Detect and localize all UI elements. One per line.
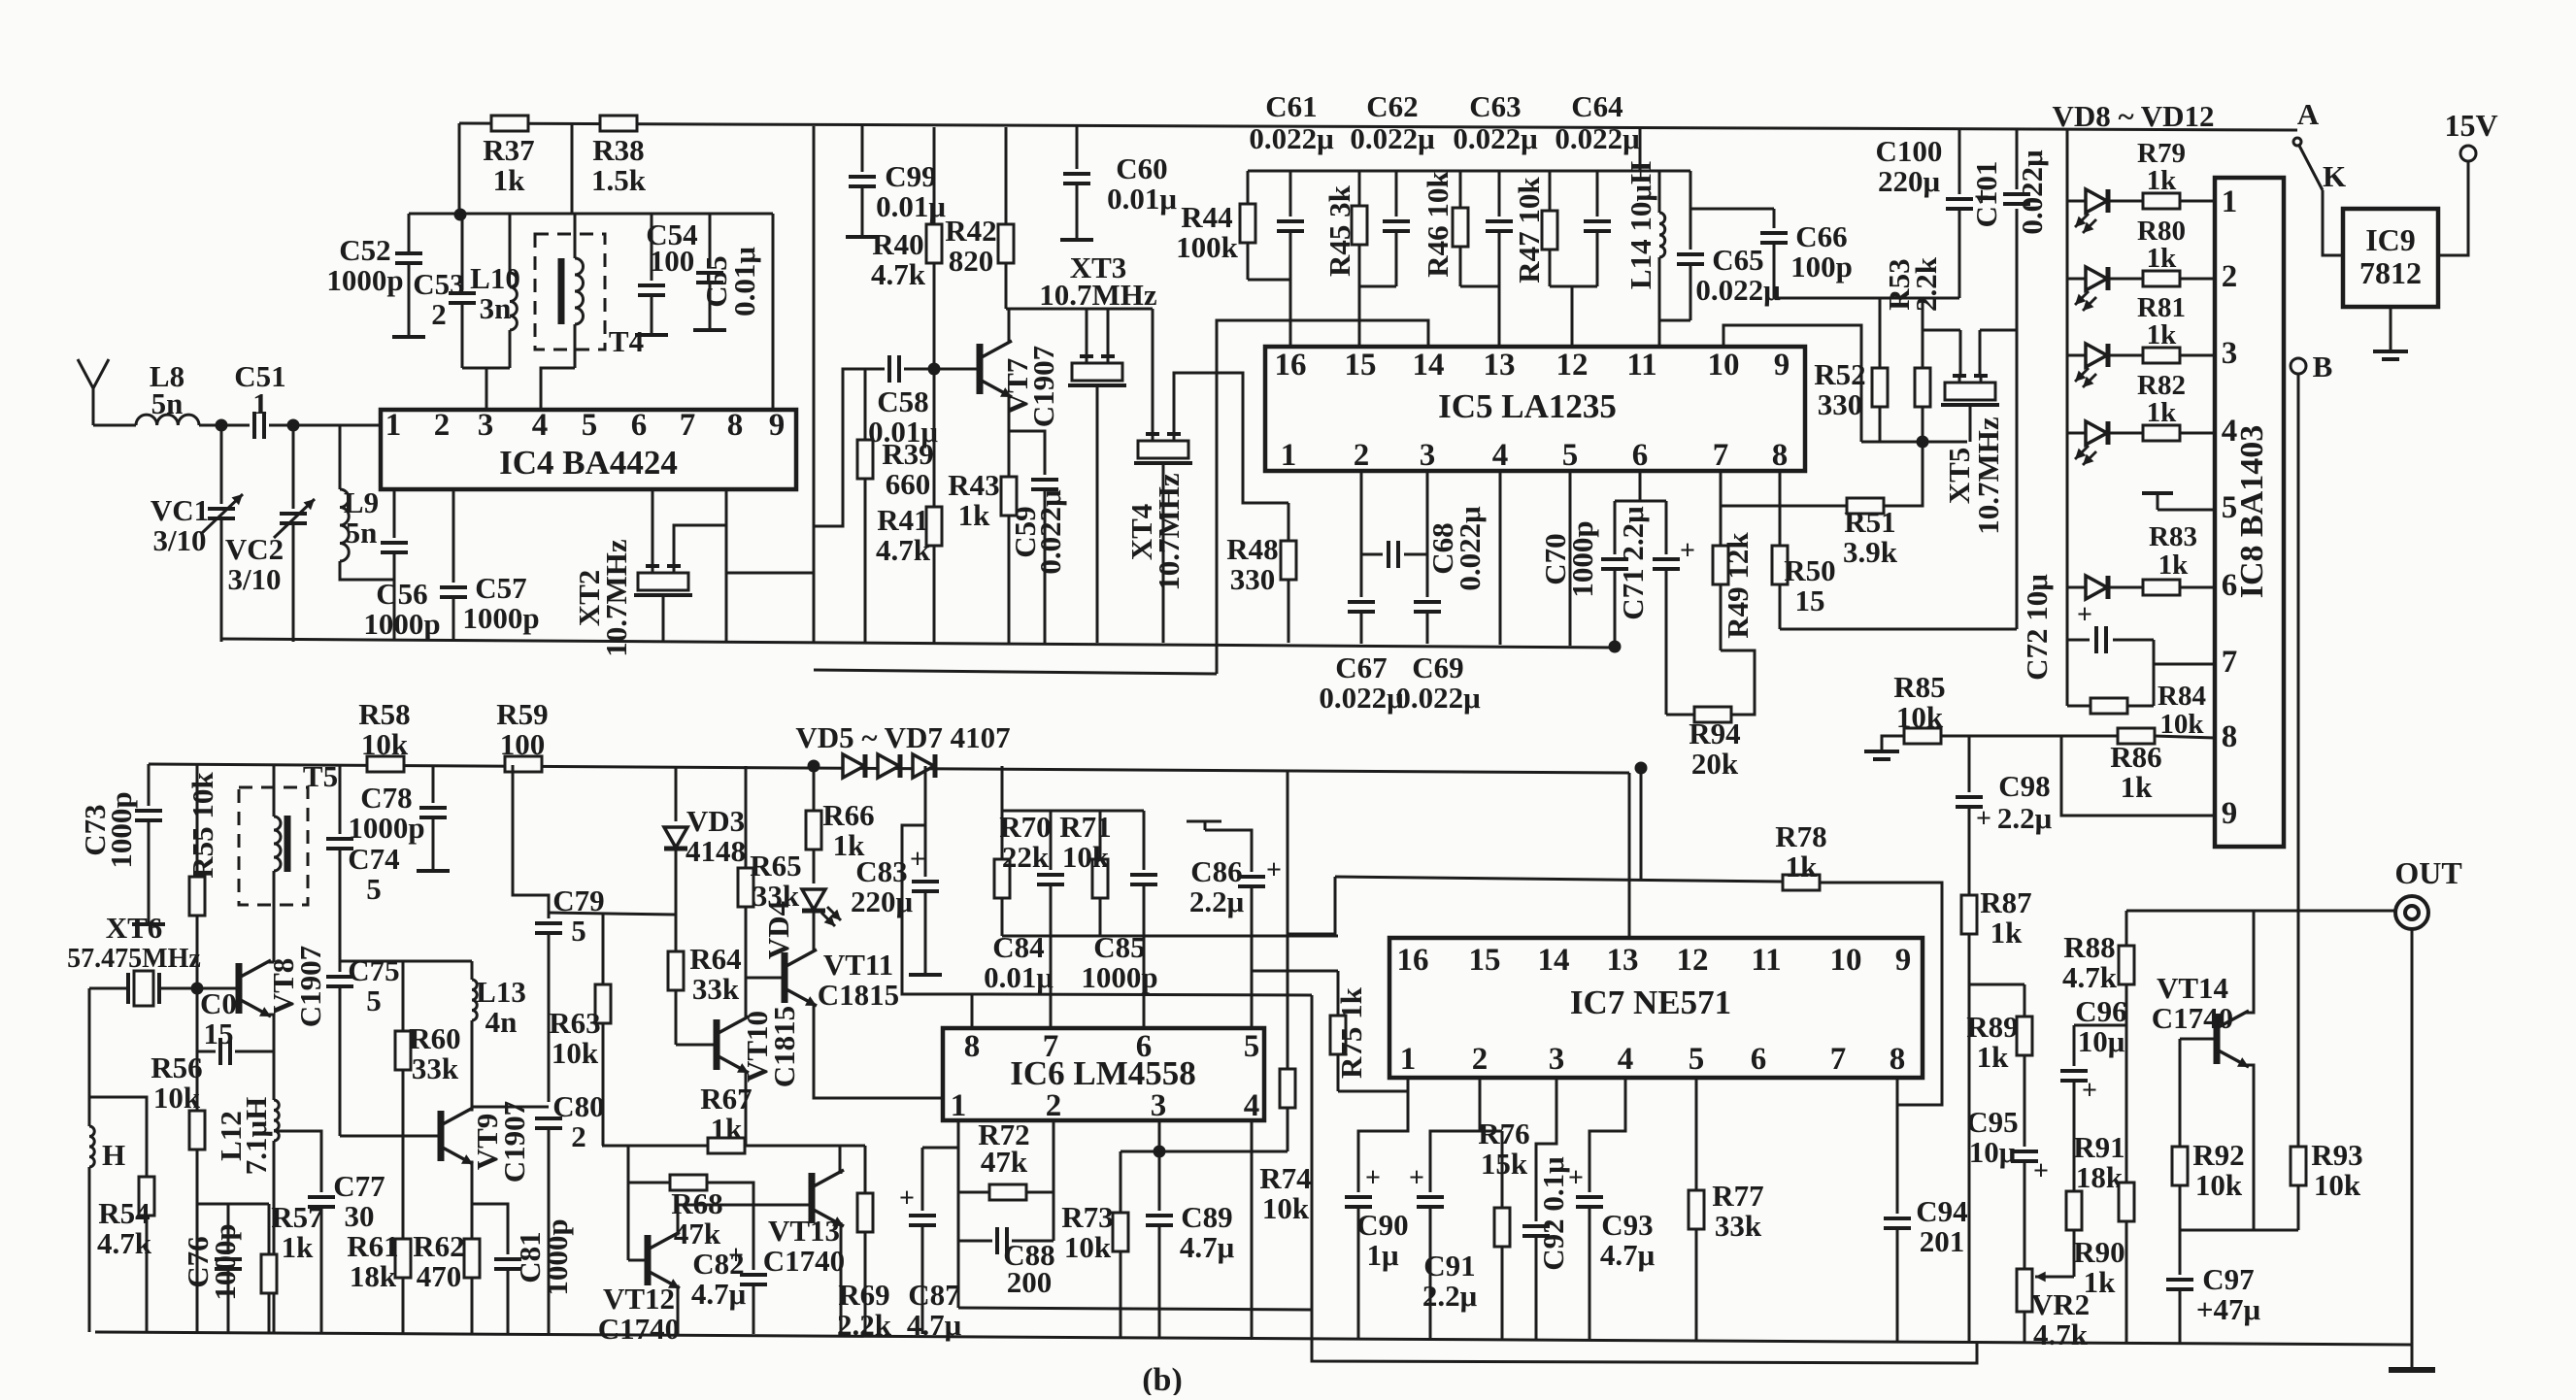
wire IC7 pin5 lead: [1695, 1078, 1698, 1190]
svg-text:R94: R94: [1689, 717, 1740, 750]
svg-text:3: 3: [478, 408, 494, 443]
svg-text:C58: C58: [877, 384, 928, 418]
wire VT12 collector: [677, 1205, 678, 1234]
svg-text:R85: R85: [1893, 670, 1945, 704]
svg-text:IC4 BA4424: IC4 BA4424: [499, 444, 678, 482]
wire R94 to R49: [1721, 650, 1755, 715]
svg-text:100k: 100k: [1176, 230, 1239, 264]
wire C57 top lead: [452, 489, 455, 583]
wire R67 to VT12 base: [627, 1146, 630, 1260]
svg-text:+: +: [2082, 1076, 2097, 1106]
svg-text:7812: 7812: [2359, 255, 2422, 290]
svg-text:4148: 4148: [686, 834, 746, 868]
wire C97 bottom lead: [2179, 1289, 2182, 1344]
terminal C60: [1060, 238, 1093, 242]
resistor R64: [668, 951, 684, 990]
wire IC5 pin5 to rail: [1569, 471, 1572, 646]
svg-text:C93: C93: [1601, 1208, 1653, 1242]
svg-text:20k: 20k: [1691, 747, 1739, 781]
svg-text:10.7MHz: 10.7MHz: [599, 539, 633, 657]
svg-text:R47 10k: R47 10k: [1512, 177, 1546, 283]
terminal B: [2291, 358, 2306, 374]
svg-text:C64: C64: [1571, 89, 1623, 123]
svg-text:R75 1k: R75 1k: [1334, 986, 1368, 1079]
svg-text:R51: R51: [1844, 505, 1895, 539]
svg-text:8: 8: [727, 408, 744, 443]
wire IC4 pin9 drop: [772, 214, 775, 410]
svg-text:6: 6: [631, 408, 648, 443]
inductor H: [89, 1126, 94, 1167]
svg-text:4: 4: [1492, 438, 1509, 473]
capacitor C71: [1653, 559, 1680, 569]
capacitor C56: [381, 543, 408, 552]
wire C87 top lead: [921, 1148, 924, 1211]
capacitor C63: [1486, 221, 1513, 231]
svg-text:9: 9: [1895, 943, 1912, 978]
svg-text:1k: 1k: [493, 163, 526, 197]
svg-text:1000p: 1000p: [363, 607, 440, 641]
resistor R67: [708, 1138, 745, 1153]
svg-text:VC2: VC2: [225, 532, 284, 566]
wire IC7 pin4 to C93: [1589, 1078, 1625, 1192]
wire VT10 base lead: [676, 1044, 717, 1047]
wire C86 node to R75: [1252, 970, 1338, 973]
connector OUT: [2395, 896, 2428, 929]
wire VT7 base lead: [934, 368, 980, 371]
wire VT8 emitter: [268, 1015, 274, 1051]
capacitor C70: [1601, 559, 1628, 569]
svg-text:C80: C80: [552, 1089, 604, 1123]
resistor R40: [926, 127, 942, 369]
svg-text:10μ: 10μ: [1969, 1135, 2017, 1169]
inductor L14: [1659, 213, 1665, 257]
svg-text:13: 13: [1607, 943, 1639, 978]
diode VD5: [843, 754, 865, 778]
wire R87 to R89: [1969, 983, 2024, 986]
svg-text:0.01μ: 0.01μ: [984, 960, 1054, 994]
capacitor C94: [1884, 1218, 1911, 1228]
wire IC6 pin7 stub: [1050, 936, 1053, 1028]
variable capacitor VC2: [280, 514, 307, 523]
svg-text:1k: 1k: [1786, 850, 1819, 883]
svg-text:10k: 10k: [2314, 1168, 2361, 1202]
wire VC2 bottom lead: [292, 523, 295, 642]
wire R60 top link: [340, 960, 403, 963]
capacitor C54: [638, 285, 665, 295]
wire VT12 emitter: [677, 1286, 678, 1334]
wire R54 top lead: [89, 1097, 147, 1177]
svg-text:C95: C95: [1966, 1105, 2018, 1139]
transistor VT8: [239, 960, 271, 1014]
wire XT6 right lead: [161, 987, 197, 990]
transistor VT7: [980, 341, 1012, 394]
wire C84 bottom lead: [1050, 884, 1053, 936]
wire C73 bottom lead: [148, 820, 151, 922]
wire C55 bottom lead: [709, 283, 712, 328]
svg-text:C74: C74: [348, 842, 399, 876]
svg-text:0.022μ: 0.022μ: [1695, 273, 1781, 307]
svg-text:R89: R89: [1966, 1010, 2018, 1044]
capacitor C81: [494, 1259, 521, 1269]
wire L13 top lead: [471, 961, 474, 980]
svg-text:C1815: C1815: [818, 978, 899, 1012]
svg-text:8: 8: [1772, 438, 1789, 473]
regulator IC9 7812: [2343, 209, 2438, 307]
transistor VT9: [441, 1108, 473, 1161]
terminal C54: [635, 333, 668, 337]
svg-text:L14 10μH: L14 10μH: [1623, 161, 1657, 289]
resistor R93: [2291, 1147, 2306, 1230]
capacitor C51: [254, 412, 264, 439]
svg-text:2: 2: [2222, 259, 2238, 294]
capacitor C89: [1146, 1216, 1173, 1225]
wire VT9 base line: [340, 1135, 441, 1138]
svg-text:4.7k: 4.7k: [2062, 960, 2118, 994]
svg-text:+: +: [1365, 1163, 1381, 1193]
svg-text:R64: R64: [689, 942, 741, 976]
wire C96 to R91: [2073, 1081, 2076, 1191]
svg-text:1k: 1k: [1991, 916, 2024, 950]
wire R70-C85 top bus: [1002, 810, 1144, 813]
ic IC8 BA1403: [2215, 178, 2284, 847]
capacitor C73: [135, 811, 162, 820]
resistor R66: [806, 766, 821, 883]
wire C59 top lead: [1009, 431, 1045, 475]
svg-text:1k: 1k: [711, 1112, 744, 1146]
svg-text:C97: C97: [2202, 1262, 2254, 1296]
svg-text:0.022μ: 0.022μ: [1395, 681, 1481, 715]
svg-text:4: 4: [2222, 414, 2238, 449]
svg-text:IC8 BA1403: IC8 BA1403: [2234, 425, 2270, 599]
wire antenna to L8: [93, 424, 136, 427]
svg-text:1000p: 1000p: [326, 263, 403, 297]
resistor R45: [1352, 171, 1367, 286]
svg-text:H: H: [102, 1138, 125, 1172]
terminal C78: [417, 869, 450, 873]
wire T5 top lead: [273, 765, 276, 817]
wire R88 to C96: [2074, 1024, 2126, 1027]
wire IC6 pin1 column: [957, 1120, 960, 1308]
svg-text:33k: 33k: [692, 972, 740, 1006]
svg-text:1k: 1k: [282, 1230, 315, 1264]
resistor R82: [2143, 425, 2180, 441]
wire VT12 base lead: [628, 1259, 648, 1262]
wire lower return line: [814, 670, 1217, 674]
transistor VT13: [812, 1170, 844, 1223]
svg-text:1000p: 1000p: [540, 1218, 574, 1295]
svg-text:14: 14: [1413, 348, 1445, 383]
wire R85 left: [1882, 736, 1904, 750]
svg-text:15: 15: [1795, 583, 1825, 617]
wire R68 right lead: [707, 1183, 753, 1205]
svg-text:R37: R37: [483, 133, 534, 167]
wire C79 R63 to VD3 node: [549, 913, 676, 915]
svg-text:B: B: [2313, 350, 2333, 383]
wire C63 top lead: [1498, 171, 1501, 217]
wire rail to IC7 pin13: [1628, 773, 1631, 938]
svg-text:C94: C94: [1916, 1194, 1967, 1228]
svg-text:C57: C57: [475, 571, 526, 605]
svg-text:3: 3: [1420, 438, 1436, 473]
svg-text:VT14: VT14: [2157, 971, 2228, 1005]
wire to VT10 collector: [745, 978, 748, 1017]
wire C93 bottom lead: [1589, 1207, 1591, 1340]
resistor R39: [857, 440, 873, 479]
svg-text:220μ: 220μ: [851, 884, 914, 918]
wire C58 branch: [814, 369, 885, 526]
svg-text:R87: R87: [1980, 885, 2031, 919]
wire XT2 case lead: [662, 597, 665, 641]
wire: [813, 950, 816, 951]
crystal XT4: [1134, 434, 1192, 463]
wire R61 top lead: [402, 1136, 405, 1239]
svg-text:C72 10μ: C72 10μ: [2020, 574, 2054, 681]
svg-text:R61: R61: [347, 1229, 398, 1263]
resistor R79: [2143, 193, 2180, 209]
svg-text:1k: 1k: [2158, 550, 2190, 581]
wire T4 to IC4 pin4: [541, 368, 575, 410]
wire C86 to IC6 pin5: [1251, 886, 1254, 1028]
wire VD3 top lead: [675, 766, 678, 821]
svg-text:R39: R39: [882, 437, 933, 471]
capacitor C80: [535, 1118, 562, 1128]
svg-text:C1907: C1907: [1026, 346, 1060, 427]
svg-text:0.01μ: 0.01μ: [727, 247, 761, 317]
resistor R70: [994, 859, 1010, 898]
wire XT3 left lead: [1086, 309, 1088, 356]
svg-text:1: 1: [2222, 184, 2238, 219]
potentiometer VR2: [2017, 1269, 2032, 1312]
wire VT10 emitter drop: [745, 1071, 748, 1146]
svg-text:C66: C66: [1795, 219, 1847, 253]
resistor R49: [1713, 546, 1728, 584]
wire pin3 node line: [1121, 1150, 1288, 1153]
resistor R90: [2119, 1183, 2134, 1221]
svg-text:5: 5: [2222, 490, 2238, 525]
diode VD7: [913, 754, 935, 778]
capacitor C90: [1345, 1197, 1372, 1207]
resistor R88: [2119, 911, 2134, 1025]
svg-text:8: 8: [2222, 719, 2238, 754]
wire C95 to VR2: [2024, 1161, 2026, 1269]
capacitor C93: [1576, 1197, 1603, 1207]
wire C72-R84 join: [2153, 640, 2156, 706]
wire T4 bottom lead: [574, 324, 577, 368]
svg-text:1000p: 1000p: [348, 811, 424, 845]
wire L14 top lead: [1658, 171, 1661, 213]
wire R84 right lead: [2127, 705, 2154, 708]
resistor R78: [1783, 875, 1820, 890]
svg-text:1000p: 1000p: [1565, 520, 1599, 597]
svg-text:3.9k: 3.9k: [1843, 535, 1898, 569]
wire LED bus: [2066, 130, 2069, 706]
wire LED row VD12: [2067, 586, 2215, 589]
ground C86: [1204, 821, 1207, 830]
wire R73 bottom lead: [1120, 1251, 1122, 1338]
wire VT14 emitter: [2246, 1065, 2254, 1230]
svg-text:1k: 1k: [2147, 243, 2178, 274]
wire IC5 pin3 lead: [1426, 471, 1429, 597]
svg-text:+: +: [2033, 1156, 2049, 1186]
svg-text:R44: R44: [1181, 200, 1232, 234]
wire IC8 pin7: [2154, 663, 2215, 666]
wire XT5 left top: [1923, 329, 1960, 332]
wire C74-C75 link: [339, 849, 342, 972]
svg-text:18k: 18k: [350, 1259, 397, 1293]
wire pin8 loop bottom: [1780, 628, 2017, 631]
svg-text:14: 14: [1538, 943, 1570, 978]
svg-text:L10: L10: [470, 261, 520, 295]
wire C66 top lead: [1773, 209, 1776, 228]
capacitor C82: [740, 1275, 767, 1284]
svg-text:(b): (b): [1142, 1362, 1183, 1395]
svg-text:C56: C56: [376, 577, 427, 611]
resistor R63: [595, 913, 611, 1146]
svg-text:R46 10k: R46 10k: [1421, 171, 1455, 278]
wire C82 top lead: [753, 1205, 755, 1270]
svg-text:5: 5: [366, 872, 382, 906]
wire IC4 pin3 stub: [485, 368, 488, 410]
svg-text:33k: 33k: [1715, 1209, 1762, 1243]
wire C98 top lead: [1968, 736, 1971, 792]
wire IC5 pin2 lead: [1360, 471, 1363, 597]
transistor VT10: [717, 1017, 749, 1070]
svg-text:4: 4: [1244, 1088, 1260, 1123]
svg-text:4.7μ: 4.7μ: [1180, 1230, 1235, 1264]
svg-text:10k: 10k: [1896, 700, 1944, 734]
svg-text:0.022μ: 0.022μ: [1453, 506, 1487, 591]
capacitor C97: [2166, 1280, 2193, 1289]
wire C51 to IC4: [269, 424, 381, 427]
capacitor C101: [2003, 194, 2030, 204]
wire C62 top lead: [1395, 171, 1398, 217]
wire R78 right link: [1820, 883, 1942, 1105]
svg-text:C101: C101: [1969, 161, 2003, 228]
switch K: [2293, 138, 2301, 146]
svg-text:IC5 LA1235: IC5 LA1235: [1438, 387, 1617, 425]
svg-text:10k: 10k: [361, 727, 409, 761]
wire R71 top lead: [1099, 811, 1102, 859]
wire C101 column: [2016, 209, 2019, 629]
wire pin8 link: [726, 572, 814, 575]
wire C56 top lead: [393, 489, 396, 538]
wire IC5 pin13 stub: [1498, 286, 1501, 347]
wire switch to IC9: [2323, 190, 2343, 255]
wire IC7 pin1 to C90: [1358, 1078, 1408, 1192]
svg-text:22k: 22k: [1002, 840, 1050, 874]
wire VT7 emitter: [1008, 395, 1011, 477]
wire IC6 pin4 to rail: [1251, 1120, 1254, 1339]
node C52 junction: [454, 209, 467, 221]
wire C87 to IC6 pin1: [922, 1147, 958, 1150]
wire C61 bottom lead: [1289, 231, 1292, 280]
wire C84 top lead: [1050, 811, 1053, 870]
wire VT13 emitter to rail: [840, 1222, 843, 1333]
wire IC6 pin2 column: [1053, 1120, 1055, 1241]
svg-text:L13: L13: [476, 975, 526, 1009]
svg-text:R92: R92: [2192, 1138, 2244, 1172]
wire R76 bottom lead: [1501, 1247, 1504, 1340]
ground OUT: [2389, 1367, 2435, 1373]
wire VT7 collector line: [1006, 308, 1153, 311]
svg-text:4n: 4n: [485, 1005, 518, 1039]
wire C97 top lead: [2179, 1230, 2182, 1275]
wire C53 top lead: [461, 214, 464, 288]
resistor R65: [738, 766, 753, 978]
svg-text:C69: C69: [1412, 650, 1463, 684]
resistor R47: [1542, 171, 1557, 286]
wire C78 top lead: [432, 765, 435, 803]
svg-text:T4: T4: [609, 324, 644, 358]
terminal C55: [693, 328, 726, 332]
wire IC9 ground lead: [2390, 307, 2392, 350]
svg-text:C0: C0: [200, 986, 237, 1020]
svg-text:201: 201: [1920, 1224, 1965, 1258]
svg-text:R41: R41: [877, 503, 928, 537]
svg-text:1: 1: [1400, 1042, 1417, 1077]
svg-text:7: 7: [680, 408, 696, 443]
capacitor C59: [1031, 480, 1058, 489]
wire C60 top lead: [1076, 126, 1079, 169]
wire T5 to VT8 collector: [273, 871, 276, 959]
inductor L13: [472, 980, 477, 1020]
svg-text:C52: C52: [339, 233, 390, 267]
wire C54 top lead: [651, 214, 653, 281]
resistor R68: [670, 1175, 707, 1190]
wire C86 ground bar: [1187, 820, 1221, 823]
wire C0 to L12: [235, 1050, 274, 1053]
capacitor C61: [1277, 221, 1304, 231]
wire VC1 top lead: [220, 425, 223, 504]
wire pin5 stub: [2157, 493, 2159, 510]
transformer T5 winding: [274, 817, 281, 871]
wire R45-C62 loop: [1359, 285, 1396, 288]
wire R65 to VT11 base: [746, 977, 785, 980]
capacitor C66: [1760, 233, 1788, 243]
node VC2 tap: [287, 419, 300, 432]
svg-text:100: 100: [650, 244, 695, 278]
wire XT3 right lead: [1107, 309, 1110, 356]
svg-text:1000p: 1000p: [462, 601, 539, 635]
svg-text:10: 10: [1708, 348, 1740, 383]
svg-text:R86: R86: [2110, 740, 2161, 774]
capacitor C98: [1956, 797, 1983, 807]
wire C78 bottom lead: [432, 817, 435, 869]
svg-text:R50: R50: [1784, 553, 1835, 587]
capacitor C95: [2011, 1151, 2038, 1161]
capacitor C68: [1388, 541, 1398, 568]
wire VT7 collector: [1008, 309, 1011, 343]
wire C68 left lead: [1361, 553, 1383, 556]
capacitor C75: [326, 977, 353, 986]
svg-text:R78: R78: [1775, 819, 1826, 853]
wire C98 bottom lead: [1968, 807, 1971, 895]
wire L9 to C56: [340, 561, 394, 580]
svg-text:1: 1: [1281, 438, 1297, 473]
svg-text:5n: 5n: [346, 516, 378, 550]
wire L10 bottom lead: [509, 330, 512, 368]
wire bottom ground rail: [95, 1332, 2412, 1345]
svg-text:12: 12: [1677, 943, 1709, 978]
svg-text:470: 470: [417, 1259, 462, 1293]
node pin3: [1154, 1146, 1166, 1158]
svg-text:0.022μ: 0.022μ: [1319, 681, 1404, 715]
resistor R41: [926, 369, 942, 643]
svg-text:1k: 1k: [2084, 1265, 2117, 1299]
wire main vertical bus: [813, 126, 816, 643]
svg-text:A: A: [2297, 97, 2320, 131]
wire VR2 wiper arrow: [2035, 1276, 2074, 1279]
